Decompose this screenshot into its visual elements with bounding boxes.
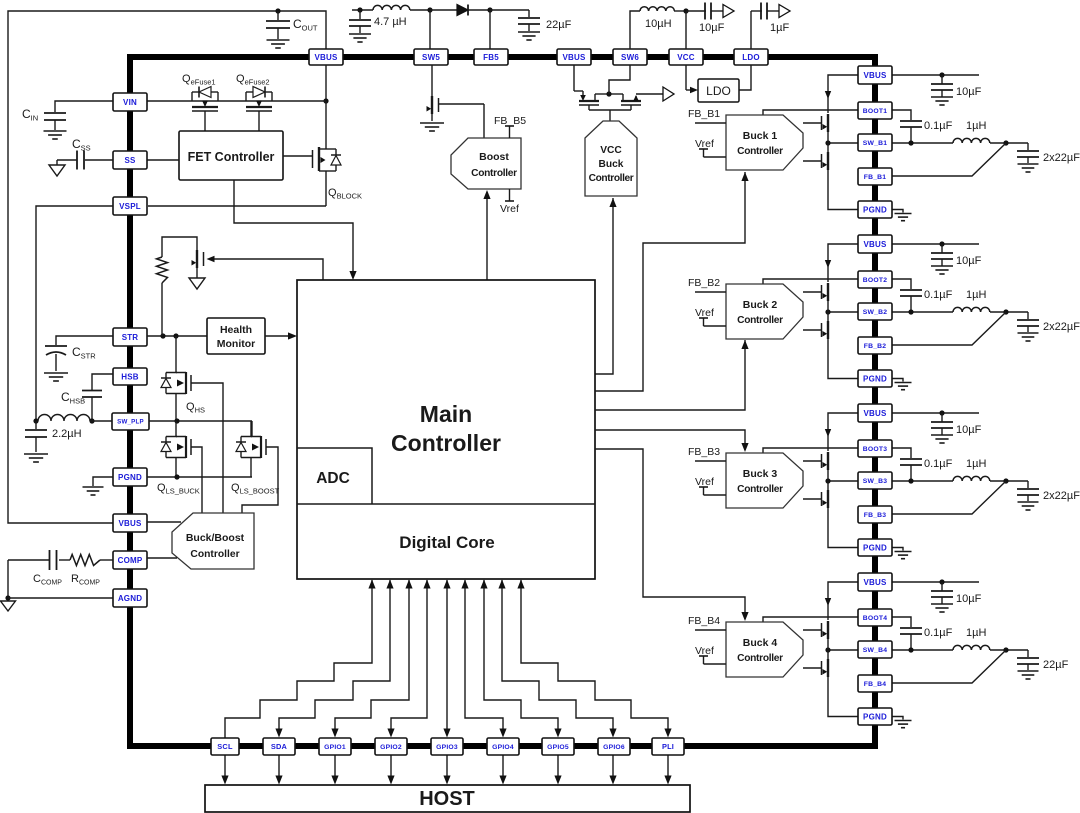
svg-text:Vref: Vref <box>500 203 519 215</box>
svg-text:PGND: PGND <box>863 374 887 383</box>
label 4.7uH <box>374 16 407 28</box>
wire SDA to digital core <box>275 580 393 738</box>
svg-text:Buck 3: Buck 3 <box>743 468 778 480</box>
capacitor 2x22µF buck2 <box>1017 312 1039 341</box>
inductor 1uH buck2 <box>953 307 1028 314</box>
block HOST <box>205 785 690 812</box>
pin AGND <box>113 589 147 607</box>
wire SW_B3 row <box>825 478 953 483</box>
svg-text:FB_B3: FB_B3 <box>688 446 720 458</box>
pin SW_B2 <box>858 303 892 320</box>
svg-text:GPIO2: GPIO2 <box>380 744 402 751</box>
wire VSPL to QBLOCK <box>148 205 326 207</box>
wire BOOT4 left <box>763 617 858 622</box>
wire VCC to LDO <box>686 65 698 93</box>
wire VBUS1 to hs fet <box>825 75 858 113</box>
svg-text:LDO: LDO <box>742 53 760 62</box>
svg-text:VBUS: VBUS <box>863 71 886 80</box>
wire Q_pullup gate from main <box>207 256 324 280</box>
label Q_BLOCK <box>328 187 362 200</box>
transistor Q6b <box>606 91 663 105</box>
wire FB_B1 feedback <box>892 143 1006 176</box>
pin GPIO6 <box>598 738 630 755</box>
transistor Q6a <box>574 65 609 105</box>
label Vref buck4 <box>695 645 714 657</box>
svg-text:Health: Health <box>220 324 252 336</box>
pin SW_B4 <box>858 641 892 658</box>
capacitor 2x22µF buck1 <box>1017 143 1039 172</box>
wire VBUS1 right <box>892 72 979 77</box>
ground PGND4 <box>890 717 912 728</box>
label 1uH buck4 <box>966 627 986 639</box>
wire VBUS left to buckboost <box>147 521 181 523</box>
transistor Q_LS_BOOST <box>236 421 266 477</box>
svg-text:0.1µF: 0.1µF <box>924 289 953 301</box>
svg-text:0.1µF: 0.1µF <box>924 120 953 132</box>
label FB_B4 <box>688 615 720 627</box>
block FET Controller <box>179 131 283 180</box>
svg-text:PGND: PGND <box>863 712 887 721</box>
wire GPIO1 to digital core <box>331 580 412 738</box>
transistor QL3 <box>803 488 828 509</box>
svg-text:BOOT4: BOOT4 <box>863 615 887 622</box>
resistor R_COMP <box>70 555 113 566</box>
svg-text:SW_B3: SW_B3 <box>863 478 887 485</box>
wire PLI to host <box>664 755 671 785</box>
pin VBUS top <box>309 49 343 65</box>
wire main to buck1 <box>595 172 749 391</box>
svg-text:ADC: ADC <box>316 470 350 487</box>
label 0.1uF buck3 <box>924 458 953 470</box>
transistor QL4 <box>803 657 828 678</box>
wire main to vcc buck <box>595 198 617 374</box>
label 22µF buck4 <box>1043 659 1069 671</box>
svg-text:1µH: 1µH <box>966 458 986 470</box>
label 10uF vcc <box>699 22 725 34</box>
svg-text:FB_B4: FB_B4 <box>688 615 720 627</box>
wire GPIO4 to host <box>499 755 506 785</box>
chip outline thick bus <box>127 54 878 749</box>
svg-text:Controller: Controller <box>737 484 783 495</box>
terminal FB_B1 lead <box>695 122 726 124</box>
wire SCL to digital core <box>225 580 376 739</box>
svg-text:22µF: 22µF <box>546 19 572 31</box>
wire PLI to digital core <box>517 580 671 738</box>
pin HSB <box>113 368 147 385</box>
pin PGND right 3 <box>858 539 892 556</box>
inductor L6 10uH <box>630 7 689 49</box>
svg-text:Buck/Boost: Buck/Boost <box>186 532 245 544</box>
svg-text:1µH: 1µH <box>966 289 986 301</box>
svg-text:SW_PLP: SW_PLP <box>117 419 144 426</box>
wire VIN rail <box>147 100 326 102</box>
ground triangle AGND <box>1 601 16 611</box>
wire fet node buck4 <box>827 641 829 657</box>
label 0.1uF buck2 <box>924 289 953 301</box>
svg-text:PGND: PGND <box>863 205 887 214</box>
svg-text:VBUS: VBUS <box>863 240 886 249</box>
wire SCL to host <box>221 755 228 785</box>
svg-text:COMP: COMP <box>118 556 143 565</box>
svg-text:LDO: LDO <box>706 84 731 98</box>
svg-text:FB5: FB5 <box>483 53 499 62</box>
label Q_eFuse1 <box>182 73 216 86</box>
pin GPIO1 <box>319 738 351 755</box>
transistor QH2 <box>803 283 828 303</box>
svg-text:BOOT1: BOOT1 <box>863 108 887 115</box>
pin STR <box>113 328 147 346</box>
buffer triangle vcc <box>663 87 674 101</box>
label R_COMP <box>71 573 100 586</box>
label 2x22µF buck3 <box>1043 490 1080 502</box>
terminal FB_B2 lead <box>695 291 726 293</box>
wire BOOT4 right cap 0.1uF <box>892 617 922 650</box>
wire FET controller to main <box>234 180 357 280</box>
capacitor C_IN <box>44 101 114 139</box>
pin FB_B5 terminal <box>494 115 526 138</box>
svg-text:PGND: PGND <box>118 473 142 482</box>
svg-text:VBUS: VBUS <box>562 53 585 62</box>
op-amp U_buck1 Buck 1 Controller <box>726 115 803 170</box>
svg-text:Controller: Controller <box>391 430 501 456</box>
svg-text:Buck 1: Buck 1 <box>743 130 778 142</box>
svg-text:Controller: Controller <box>190 549 239 560</box>
pin LDO <box>734 49 768 65</box>
label C_IN <box>22 107 38 123</box>
wire VSPL to inductor <box>36 206 113 421</box>
wire VBUS4 to hs fet <box>825 582 858 620</box>
svg-text:HOST: HOST <box>419 788 475 810</box>
wire VBUS3 right <box>892 410 979 415</box>
terminal Vref boost <box>500 189 519 215</box>
capacitor C_HSB <box>82 374 113 421</box>
wire main to boost controller <box>483 190 490 280</box>
transistor Q_HS <box>161 336 191 421</box>
svg-text:AGND: AGND <box>118 594 142 603</box>
svg-text:FB_B5: FB_B5 <box>494 115 526 127</box>
capacitor C_STR <box>44 336 113 381</box>
svg-text:1µH: 1µH <box>966 627 986 639</box>
capacitor C_OUT <box>266 8 290 48</box>
pin BOOT3 <box>858 440 892 457</box>
wire SW_B1 row <box>825 140 953 145</box>
transistor Q_pullup <box>192 250 204 278</box>
wire SW_PLP to QLSBOOST <box>251 421 253 437</box>
pin VBUS right 4 <box>858 573 892 591</box>
transistor Q_BLOCK <box>313 101 342 206</box>
wire GPIO6 to host <box>609 755 616 785</box>
wire GPIO5 to host <box>554 755 561 785</box>
svg-text:FET Controller: FET Controller <box>188 150 275 164</box>
pin GPIO5 <box>542 738 574 755</box>
svg-text:Controller: Controller <box>737 653 783 664</box>
label FB_B1 <box>688 108 720 120</box>
wire main to buck4 <box>595 449 749 621</box>
wire GPIO6 to digital core <box>498 580 616 738</box>
pin FB5 <box>474 49 508 65</box>
wire SW6 to pmos node <box>609 65 630 94</box>
wire PGND2 <box>828 340 858 379</box>
svg-text:2x22µF: 2x22µF <box>1043 490 1080 502</box>
label FB_B2 <box>688 277 720 289</box>
pin VBUS right 1 <box>858 66 892 84</box>
wire PGND4 <box>828 678 858 717</box>
capacitor 22µF buck4 <box>1017 650 1039 679</box>
svg-text:PGND: PGND <box>863 543 887 552</box>
svg-text:HSB: HSB <box>121 372 139 381</box>
label 10uH <box>645 18 672 30</box>
pin SDA <box>263 738 295 755</box>
svg-text:VBUS: VBUS <box>314 53 337 62</box>
wire SW_B4 row <box>825 647 953 652</box>
wire FB_B4 feedback <box>892 650 1006 683</box>
wire GPIO2 to digital core <box>387 580 430 738</box>
wire PGND3 <box>828 509 858 548</box>
wire LDO pin to LDO block <box>739 65 751 90</box>
ground PGND3 <box>890 548 912 559</box>
svg-text:SDA: SDA <box>271 742 288 751</box>
svg-text:0.1µF: 0.1µF <box>924 627 953 639</box>
inductor L_PLP 2.2uH <box>33 415 112 424</box>
pin GPIO2 <box>375 738 407 755</box>
wire BOOT2 right cap 0.1uF <box>892 279 922 312</box>
label 1uH buck3 <box>966 458 986 470</box>
label C_STR <box>72 345 96 361</box>
pin BOOT4 <box>858 609 892 626</box>
label FB_B3 <box>688 446 720 458</box>
svg-text:FB_B1: FB_B1 <box>688 108 720 120</box>
label Vref buck3 <box>695 476 714 488</box>
svg-text:FB_B1: FB_B1 <box>864 174 887 181</box>
pin VCC <box>669 49 703 65</box>
wire BOOT1 left <box>763 110 858 115</box>
terminal FB_B3 lead <box>695 460 726 462</box>
capacitor 10uF buck1 <box>931 75 953 105</box>
pin FB_B4 <box>858 675 892 692</box>
svg-text:FB_B4: FB_B4 <box>864 681 887 688</box>
svg-text:4.7 µH: 4.7 µH <box>374 16 407 28</box>
svg-text:1µH: 1µH <box>966 120 986 132</box>
svg-text:STR: STR <box>122 333 139 342</box>
svg-text:VBUS: VBUS <box>863 409 886 418</box>
transistor QL2 <box>803 319 828 340</box>
svg-text:VIN: VIN <box>123 98 137 107</box>
pin SS <box>113 151 147 169</box>
svg-text:GPIO5: GPIO5 <box>547 744 569 751</box>
label 10uF buck4 <box>956 593 982 605</box>
wire VBUS2 right <box>892 241 979 246</box>
svg-text:GPIO1: GPIO1 <box>324 744 346 751</box>
wire pmos gates <box>589 105 631 121</box>
wire comp gnd to AGND <box>5 560 113 601</box>
pin SW_B3 <box>858 472 892 489</box>
wire VBUS4 right <box>892 579 979 584</box>
pin VSPL <box>113 197 147 215</box>
label Q_LS_BOOST <box>231 482 280 495</box>
capacitor 2x22µF buck3 <box>1017 481 1039 510</box>
pin FB_B1 <box>858 168 892 185</box>
inductor 1uH buck1 <box>953 138 1028 145</box>
transistor QH1 <box>803 114 828 134</box>
svg-text:Buck 2: Buck 2 <box>743 299 778 311</box>
label Vref buck2 <box>695 307 714 319</box>
svg-text:BOOT2: BOOT2 <box>863 277 887 284</box>
wire BOOT2 left <box>763 279 858 284</box>
label 1uH buck1 <box>966 120 986 132</box>
pin VBUS2 <box>557 49 591 65</box>
wire GPIO5 to digital core <box>480 580 561 738</box>
wire VBUS pin to eFuse rail <box>323 65 328 104</box>
wire PGND row <box>147 474 252 479</box>
capacitor 10uF vcc <box>686 3 734 20</box>
resistor R_pullup <box>157 237 198 336</box>
pin VIN <box>113 93 147 111</box>
label Q_LS_BUCK <box>157 482 200 495</box>
svg-text:10µF: 10µF <box>956 593 982 605</box>
pin VBUS left <box>113 514 147 532</box>
svg-text:0.1µF: 0.1µF <box>924 458 953 470</box>
wire SW5 top rail <box>352 7 529 49</box>
op-amp U_buck2 Buck 2 Controller <box>726 284 803 339</box>
svg-text:Digital Core: Digital Core <box>399 533 494 552</box>
pin GPIO4 <box>487 738 519 755</box>
wire GPIO3 to host <box>443 755 450 785</box>
label C_HSB <box>61 390 85 406</box>
transistor Q5 boost FET <box>420 65 444 131</box>
label 2x22µF buck1 <box>1043 152 1080 164</box>
wire GPIO4 to digital core <box>461 580 506 738</box>
wire BOOT1 right cap 0.1uF <box>892 110 922 143</box>
pin SW5 <box>414 49 448 65</box>
svg-text:10µH: 10µH <box>645 18 672 30</box>
wire BOOT3 left <box>763 448 858 453</box>
svg-text:2x22µF: 2x22µF <box>1043 152 1080 164</box>
capacitor 10uF buck4 <box>931 582 953 612</box>
svg-text:Buck: Buck <box>599 159 624 170</box>
transistor Q_LS_BUCK <box>161 421 191 477</box>
transistor Q_eFuse2 <box>246 87 272 132</box>
capacitor C_SS <box>57 151 113 170</box>
wire GPIO2 to host <box>387 755 394 785</box>
wire COMP to buckboost <box>147 557 177 559</box>
pin SW_B1 <box>858 134 892 151</box>
svg-text:PLI: PLI <box>662 742 674 751</box>
op-amp U_vccbuck VCC Buck Controller <box>585 121 637 196</box>
wire QLSBUCK gate <box>191 447 202 513</box>
wire health monitor to main <box>265 332 297 339</box>
wire BOOT3 right cap 0.1uF <box>892 448 922 481</box>
transistor Q_eFuse1 <box>192 87 218 132</box>
block Main Controller <box>297 280 595 579</box>
label C_COMP <box>33 573 62 586</box>
wire main to buck3 <box>595 430 749 452</box>
pin PGND right 1 <box>858 201 892 218</box>
svg-text:22µF: 22µF <box>1043 659 1069 671</box>
label 1uH buck2 <box>966 289 986 301</box>
label C_SS <box>72 137 91 153</box>
ground triangle C_SS <box>49 165 65 176</box>
svg-text:BOOT3: BOOT3 <box>863 446 887 453</box>
terminal Vref buck4 <box>699 656 726 664</box>
terminal Vref buck3 <box>699 487 726 495</box>
wire VBUS2 to hs fet <box>825 244 858 282</box>
capacitor 10uF buck2 <box>931 244 953 274</box>
label 10uF buck2 <box>956 255 982 267</box>
svg-text:FB_B3: FB_B3 <box>864 512 887 519</box>
capacitor 1uF ldo <box>751 3 790 50</box>
wire VBUS3 to hs fet <box>825 413 858 451</box>
svg-text:1µF: 1µF <box>770 22 789 34</box>
diode D5 <box>457 5 468 16</box>
op-amp U_buckboost Buck-Boost Controller <box>172 513 254 569</box>
svg-text:SCL: SCL <box>217 742 233 751</box>
svg-text:FB_B2: FB_B2 <box>864 343 887 350</box>
capacitor C_PLP <box>24 421 48 462</box>
label Q_HS <box>186 401 205 414</box>
pin VBUS right 3 <box>858 404 892 422</box>
svg-text:FB_B2: FB_B2 <box>688 277 720 289</box>
wire SW_B2 row <box>825 309 953 314</box>
wire GPIO3 to digital core <box>443 580 450 738</box>
ground PGND2 <box>890 379 912 390</box>
op-amp U_buck4 Buck 4 Controller <box>726 622 803 677</box>
ground PGND1 <box>890 210 912 221</box>
wire STR to health monitor <box>147 333 207 338</box>
svg-text:GPIO4: GPIO4 <box>492 744 514 751</box>
svg-text:GPIO3: GPIO3 <box>436 744 458 751</box>
terminal FB_B4 lead <box>695 629 726 631</box>
wire QLSBOOST gate <box>242 447 278 513</box>
pin PLI <box>652 738 684 755</box>
svg-text:SW_B4: SW_B4 <box>863 647 887 654</box>
capacitor 10uF buck3 <box>931 413 953 443</box>
svg-text:Controller: Controller <box>737 315 783 326</box>
svg-text:VBUS: VBUS <box>118 519 141 528</box>
label 22uF top <box>546 19 572 31</box>
svg-text:Controller: Controller <box>471 168 517 179</box>
svg-text:VCC: VCC <box>600 145 622 156</box>
wire GPIO1 to host <box>331 755 338 785</box>
label 0.1uF buck4 <box>924 627 953 639</box>
svg-text:10µF: 10µF <box>956 424 982 436</box>
wire SDA to host <box>275 755 282 785</box>
pin BOOT2 <box>858 271 892 288</box>
svg-text:SW_B1: SW_B1 <box>863 140 887 147</box>
capacitor C_COMP <box>8 550 70 570</box>
regulator LDO block <box>698 79 739 102</box>
pin FB_B2 <box>858 337 892 354</box>
label 0.1uF buck1 <box>924 120 953 132</box>
block Health Monitor <box>207 318 265 354</box>
wire PGND1 <box>828 171 858 210</box>
transistor QH3 <box>803 452 828 472</box>
pin GPIO3 <box>431 738 463 755</box>
label 1uF <box>770 22 789 34</box>
capacitor 22uF top <box>518 10 540 40</box>
wire FB_B2 feedback <box>892 312 1006 345</box>
wire QHS gate <box>191 383 223 513</box>
svg-text:10µF: 10µF <box>956 255 982 267</box>
inductor 1uH buck3 <box>953 476 1028 483</box>
transistor QL1 <box>803 150 828 171</box>
label Q_eFuse2 <box>236 73 270 86</box>
op-amp U_boost Boost Controller <box>451 138 521 189</box>
svg-text:Controller: Controller <box>589 173 634 184</box>
svg-text:10µF: 10µF <box>956 86 982 98</box>
pin SCL <box>211 738 239 755</box>
ground PGND left <box>83 477 114 495</box>
svg-text:Main: Main <box>420 401 472 427</box>
